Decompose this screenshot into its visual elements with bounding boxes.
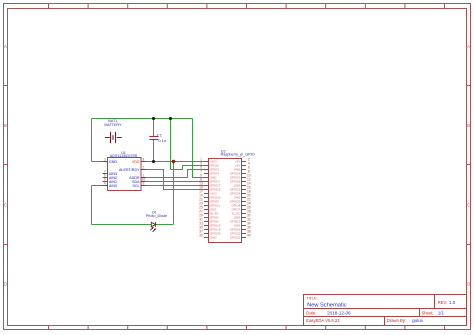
svg-text:TITLE:: TITLE: bbox=[306, 297, 317, 301]
U2 pin 12 GPIO18 bbox=[230, 178, 251, 184]
U2 pin 37 GPIO26 bbox=[199, 230, 221, 236]
U2 pin 21 GPIO9 bbox=[199, 198, 219, 204]
U2 reference labels bbox=[221, 149, 255, 156]
svg-text:ADS1115IDGSR: ADS1115IDGSR bbox=[110, 154, 138, 158]
wire VDD junction down to photodiode bbox=[173, 162, 175, 225]
U2 pin 3 GPIO2 bbox=[200, 162, 219, 168]
U1 pin 7 AIN3 bbox=[103, 170, 118, 176]
svg-text:EasyEDA V5.8.22: EasyEDA V5.8.22 bbox=[306, 318, 340, 323]
svg-text:2018-12-06: 2018-12-06 bbox=[327, 310, 351, 315]
connector U2 Raspberry_pi_GPIO body bbox=[209, 159, 242, 243]
capacitor C1 labels bbox=[157, 132, 166, 143]
junction top rail at capacitor bbox=[152, 117, 155, 120]
svg-text:A: A bbox=[467, 44, 470, 49]
U1 pin 8 VDD bbox=[132, 158, 146, 164]
svg-text:GPIO21: GPIO21 bbox=[230, 236, 241, 240]
wire left vertical from top rail to U1 GND bbox=[91, 119, 93, 162]
svg-text:0.1u: 0.1u bbox=[158, 138, 166, 143]
junction top rail at GPIO2 branch bbox=[169, 117, 172, 120]
U2 pin 40 GPIO21 bbox=[230, 234, 251, 240]
U2 pin 27 ID_SD bbox=[199, 210, 218, 216]
svg-text:B: B bbox=[4, 123, 7, 128]
wire AIN0 loop vertical bbox=[91, 186, 93, 225]
svg-text:A: A bbox=[4, 44, 7, 49]
battery BAT1 bbox=[105, 132, 122, 143]
svg-text:REV:: REV: bbox=[438, 300, 448, 305]
svg-text:Date:: Date: bbox=[306, 310, 316, 315]
U2 pin 18 GPIO24 bbox=[230, 190, 251, 196]
capacitor C1 bbox=[149, 137, 158, 140]
U2 pin 33 GPIO13 bbox=[199, 222, 221, 228]
U2 pin 34 GND bbox=[234, 222, 251, 228]
svg-text:D: D bbox=[4, 282, 7, 287]
U2 pin 7 GPIO4 bbox=[200, 170, 219, 176]
svg-text:C1: C1 bbox=[157, 132, 162, 137]
U2 pin 31 GPIO6 bbox=[199, 218, 219, 224]
U2 pin 23 GPIO11 bbox=[199, 202, 220, 208]
U2 pin 5 GPIO3 bbox=[200, 166, 219, 172]
U1 pin 5 AIN1 bbox=[103, 178, 118, 184]
IC U1 ADS1115IDGSR body bbox=[108, 158, 142, 191]
U2 pin 29 GPIO5 bbox=[199, 214, 219, 220]
U2 pin 20 GND bbox=[234, 194, 251, 200]
svg-text:C: C bbox=[4, 202, 7, 207]
wire capacitor branch lower bbox=[153, 140, 155, 162]
U2 pin 19 GPIO10 bbox=[199, 194, 221, 200]
wire photodiode row left segment bbox=[92, 224, 151, 226]
U2 pin 10 GPIO15 bbox=[230, 174, 251, 180]
svg-text:SCL: SCL bbox=[132, 184, 139, 188]
U2 pin 24 GPIO8 bbox=[231, 202, 250, 208]
wire top rail to RPi pin9 GND bbox=[193, 119, 205, 178]
junction VDD row at capacitor bbox=[152, 160, 155, 163]
svg-text:VDD: VDD bbox=[132, 160, 140, 164]
U2 pin 1 +3V3 bbox=[200, 158, 217, 164]
U2 pin 6 GND bbox=[234, 166, 250, 172]
U2 pin 8 GPIO14 bbox=[230, 170, 250, 176]
wire U1 GND pin row bbox=[92, 161, 108, 163]
wire jog to RPi pin3 bbox=[171, 166, 205, 170]
svg-text:1.0: 1.0 bbox=[449, 300, 456, 305]
svg-text:Sheet:: Sheet: bbox=[422, 310, 434, 315]
U1 pin 4 AIN0 bbox=[103, 182, 118, 188]
U2 pin 26 GPIO7 bbox=[231, 206, 250, 212]
wire ALERT/RDY to RPi pin15 bbox=[141, 170, 204, 190]
U2 pin 11 GPIO17 bbox=[199, 178, 220, 184]
U2 pin 28 ID_SC bbox=[232, 210, 251, 216]
U2 pin 39 GND bbox=[199, 234, 216, 240]
U1 pin 2 ALERT/RDY bbox=[119, 166, 146, 172]
U2 pin 17 +3V3 bbox=[199, 190, 217, 196]
svg-text:GND: GND bbox=[210, 236, 216, 240]
photodiode D1 bbox=[150, 222, 155, 232]
svg-text:ALERT/RDY: ALERT/RDY bbox=[119, 168, 140, 172]
wire photodiode row right segment bbox=[156, 224, 174, 226]
U1 pin 3 GND bbox=[103, 158, 118, 164]
U2 pin 30 GND bbox=[234, 214, 251, 220]
junction VDD row at photodiode branch bbox=[172, 160, 175, 163]
wire top GND rail bbox=[92, 118, 193, 120]
U1 reference labels bbox=[110, 151, 138, 158]
svg-text:BATTERY: BATTERY bbox=[104, 123, 122, 127]
title block bbox=[304, 295, 467, 326]
svg-text:GND: GND bbox=[109, 160, 118, 164]
wire AIN0 row bbox=[92, 185, 108, 187]
svg-text:Raspberry_pi_GPIO: Raspberry_pi_GPIO bbox=[221, 153, 255, 157]
svg-text:Drawn By:: Drawn By: bbox=[387, 318, 406, 323]
svg-text:4: 4 bbox=[104, 182, 106, 186]
svg-text:B: B bbox=[467, 123, 470, 128]
battery BAT1 labels bbox=[104, 119, 122, 127]
U2 pin 36 GPIO16 bbox=[230, 226, 251, 232]
U1 pin 10 SDA bbox=[132, 178, 146, 184]
U1 pin 6 AIN2 bbox=[103, 174, 118, 180]
U1 pin 1 ADDR bbox=[129, 174, 146, 180]
wire SDA to RPi pin11 bbox=[141, 181, 204, 183]
svg-text:39: 39 bbox=[199, 234, 203, 238]
U2 pin 15 GPIO22 bbox=[199, 186, 221, 192]
wire capacitor branch upper bbox=[153, 119, 155, 137]
svg-text:Photo_Diode: Photo_Diode bbox=[146, 214, 167, 218]
U1 pin 9 SCL bbox=[132, 182, 145, 188]
photodiode D1 labels bbox=[146, 211, 167, 219]
svg-text:C: C bbox=[467, 202, 470, 207]
wire ADDR to RPi pin5 bbox=[141, 170, 204, 178]
U2 pin 25 GND bbox=[199, 206, 216, 212]
svg-text:D: D bbox=[467, 282, 470, 287]
U2 pin 14 GND bbox=[234, 182, 251, 188]
svg-text:2: 2 bbox=[143, 166, 145, 170]
U2 pin 22 GPIO25 bbox=[230, 198, 251, 204]
U2 pin 38 GPIO20 bbox=[230, 230, 251, 236]
svg-text:New Schematic: New Schematic bbox=[307, 302, 347, 308]
wire SCL to RPi pin13 bbox=[141, 185, 204, 187]
svg-text:3: 3 bbox=[104, 158, 106, 162]
U2 pin 16 GPIO23 bbox=[230, 186, 251, 192]
svg-text:40: 40 bbox=[247, 234, 251, 238]
U2 pin 4 +5V bbox=[235, 162, 250, 168]
U2 pin 13 GPIO27 bbox=[199, 182, 221, 188]
wire VDD row U1 to RPi pin1 bbox=[141, 161, 204, 163]
U2 pin 35 GPIO19 bbox=[199, 226, 221, 232]
U2 pin 2 +5V bbox=[235, 158, 250, 164]
svg-text:gulux: gulux bbox=[412, 318, 424, 323]
svg-text:9: 9 bbox=[143, 182, 145, 186]
wire vertical top rail to GPIO2 jog bbox=[170, 119, 172, 170]
U2 pin 9 GND bbox=[200, 174, 216, 180]
svg-text:1/1: 1/1 bbox=[438, 310, 445, 315]
U2 pin 32 GPIO12 bbox=[230, 218, 251, 224]
svg-text:AIN0: AIN0 bbox=[109, 184, 117, 188]
svg-text:8: 8 bbox=[143, 158, 145, 162]
